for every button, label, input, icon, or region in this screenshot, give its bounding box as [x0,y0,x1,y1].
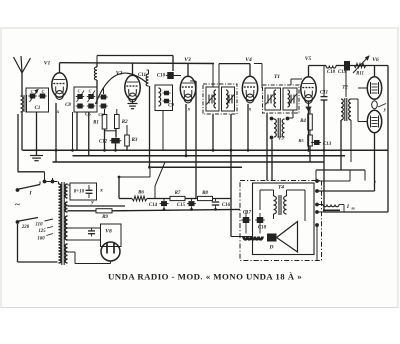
svg-text:C19: C19 [338,70,347,75]
svg-text:C: C [78,89,81,94]
svg-text:V1: V1 [44,61,51,67]
svg-text:R2: R2 [122,120,128,125]
svg-text:T4: T4 [278,185,284,191]
svg-text:UNDA RADIO - MOD. « MONO UNDA: UNDA RADIO - MOD. « MONO UNDA 18 À » [108,272,302,282]
svg-text:R11: R11 [356,72,364,77]
svg-text:C18: C18 [258,226,267,231]
svg-text:V3: V3 [184,57,191,63]
svg-text:160: 160 [37,237,45,242]
svg-text:R9: R9 [102,215,108,220]
svg-text:C18: C18 [327,70,336,75]
svg-text:T1: T1 [274,74,280,80]
svg-text:125: 125 [38,229,46,234]
svg-text:C11: C11 [138,73,146,78]
svg-text:C9: C9 [168,104,174,109]
svg-text:110: 110 [36,223,44,228]
svg-text:C16: C16 [222,203,231,208]
svg-text:R6: R6 [138,191,144,196]
svg-text:C: C [89,89,92,94]
svg-text:R8: R8 [202,191,208,196]
svg-text:T2: T2 [342,86,348,91]
svg-text:m: m [351,206,354,211]
svg-text:V6: V6 [372,57,379,63]
svg-text:V4: V4 [245,57,252,63]
svg-text:R1: R1 [93,121,99,126]
svg-text:D: D [269,245,274,251]
svg-text:C14: C14 [149,203,158,208]
svg-text:V8: V8 [105,229,112,235]
svg-text:C17: C17 [243,211,252,216]
svg-text:C15: C15 [177,203,186,208]
svg-text:C10: C10 [157,74,166,79]
svg-text:x: x [187,108,191,113]
svg-text:C8: C8 [65,103,71,108]
svg-text:220: 220 [21,225,30,230]
svg-text:R5: R5 [298,138,304,143]
svg-text:R4: R4 [300,119,306,124]
svg-text:y: y [90,200,94,206]
svg-text:~: ~ [15,200,20,210]
svg-text:8÷10: 8÷10 [74,190,85,195]
svg-text:C: C [42,89,45,94]
svg-text:C12: C12 [99,140,108,145]
svg-text:V2: V2 [116,71,123,77]
svg-text:x: x [99,188,103,194]
svg-text:C: C [31,89,34,94]
svg-text:R7: R7 [175,191,181,196]
svg-text:C1: C1 [35,106,41,111]
svg-text:V5: V5 [305,56,312,62]
svg-text:R3: R3 [132,138,138,143]
